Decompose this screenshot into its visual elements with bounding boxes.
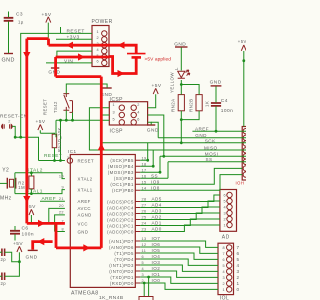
svg-text:(T0)PD4: (T0)PD4	[114, 257, 134, 262]
svg-text:2p: 2p	[1, 281, 7, 286]
svg-text:(ADC1)PC1: (ADC1)PC1	[107, 223, 134, 228]
wire IO4	[140, 259, 218, 265]
wire IO7	[140, 241, 218, 247]
svg-text:18: 18	[142, 162, 147, 166]
svg-text:VIN: VIN	[64, 58, 73, 64]
wire ICSP MOSI row4	[148, 115, 164, 156]
node C4 aref junction	[215, 130, 218, 133]
svg-text:4: 4	[96, 48, 99, 52]
svg-text:2: 2	[137, 103, 140, 107]
svg-text:7: 7	[222, 252, 225, 256]
svg-text:8: 8	[222, 246, 225, 250]
arrow left on +5V row	[66, 42, 73, 49]
svg-text:IC1: IC1	[68, 149, 77, 154]
wire +5V stem avcc	[30, 215, 32, 223]
battery symbol >5V applied	[127, 54, 146, 58]
svg-text:15: 15	[142, 180, 147, 184]
wire IO0	[140, 283, 218, 289]
svg-text:RESET-EN: RESET-EN	[0, 114, 28, 120]
svg-text:1: 1	[223, 223, 226, 227]
svg-text:4: 4	[137, 110, 140, 114]
wire SS line	[168, 161, 246, 163]
svg-text:AREF: AREF	[78, 199, 91, 204]
svg-text:L: L	[174, 67, 179, 70]
wire reset-en jumper to reset net	[12, 126, 15, 137]
wire R1 pullup leads	[40, 130, 54, 160]
svg-text:1M: 1M	[18, 185, 25, 190]
ground symbol bottom left	[28, 249, 38, 251]
svg-text:(MISO)PB4: (MISO)PB4	[108, 164, 134, 169]
svg-text:(OC1)PB1: (OC1)PB1	[110, 182, 134, 187]
svg-text:23: 23	[142, 228, 147, 232]
pin numbers AD header	[223, 193, 226, 227]
svg-text:19: 19	[142, 156, 147, 160]
wire AREF line	[192, 130, 246, 132]
svg-text:IO9: IO9	[151, 179, 160, 184]
svg-text:>5V applied: >5V applied	[145, 57, 172, 63]
svg-text:IO2: IO2	[152, 266, 161, 271]
connector IOL header outline	[218, 243, 234, 294]
wire AD0	[140, 225, 220, 232]
pin pads ICSP	[119, 105, 124, 110]
wire red top horizontal	[27, 37, 49, 40]
connector AD header outline	[220, 190, 237, 232]
svg-text:(SCK)PB5: (SCK)PB5	[110, 158, 134, 163]
red flow arrows	[23, 42, 124, 252]
connector POWER header outline	[92, 26, 109, 67]
svg-text:28: 28	[142, 198, 147, 202]
svg-text:16: 16	[142, 174, 147, 178]
svg-text:RESET: RESET	[78, 158, 95, 163]
wire crystal left lead	[0, 182, 7, 184]
svg-text:GND: GND	[78, 229, 89, 234]
wire ICSP MISO row1 left	[89, 108, 109, 150]
wire SCK line	[101, 142, 246, 144]
svg-text:AVCC: AVCC	[78, 206, 91, 211]
wire RESET net from power header	[21, 33, 92, 137]
svg-text:IOH: IOH	[236, 181, 245, 186]
svg-text:C4: C4	[221, 98, 228, 104]
node led resistor top junction	[180, 83, 183, 86]
svg-text:1: 1	[222, 288, 225, 292]
wire red gnd pin5 left	[56, 57, 110, 77]
wire SS riser to pin16	[140, 162, 168, 178]
wire GND line	[158, 137, 246, 139]
wire MOSI riser to pin17	[140, 156, 160, 172]
svg-text:6: 6	[142, 255, 145, 259]
svg-text:24: 24	[142, 222, 147, 226]
node mosi line junction	[162, 155, 165, 158]
svg-text:(AIN0)PD6: (AIN0)PD6	[109, 245, 134, 250]
wire AD1	[140, 219, 220, 226]
svg-text:2: 2	[223, 217, 226, 221]
svg-text:5: 5	[223, 199, 226, 203]
arrow left on gnd branch	[37, 238, 44, 245]
svg-text:AREF: AREF	[42, 196, 57, 202]
svg-text:RN1D_10K: RN1D_10K	[57, 127, 62, 152]
LED1 yellow	[178, 70, 190, 78]
wire IO6	[140, 247, 218, 253]
wire IO2	[140, 271, 218, 277]
power +5V symbol bottom left	[17, 246, 22, 252]
svg-text:+5V: +5V	[36, 119, 46, 125]
svg-text:2: 2	[222, 282, 225, 286]
wire IO9	[140, 168, 242, 184]
svg-text:(INT1)PD3: (INT1)PD3	[109, 263, 134, 268]
svg-text:1K: 1K	[205, 101, 210, 107]
svg-text:+5V: +5V	[13, 241, 23, 247]
ground symbol below C3	[4, 53, 13, 55]
svg-text:C3: C3	[16, 12, 23, 18]
IC left pin numbers	[59, 156, 70, 232]
svg-text:AD3: AD3	[152, 209, 162, 214]
pin numbers POWER	[96, 30, 99, 64]
wire button bottom rail to ICSP pin5	[56, 110, 109, 137]
svg-text:(T1)PD5: (T1)PD5	[114, 251, 134, 256]
svg-text:AD2: AD2	[152, 215, 162, 220]
svg-text:(ADC2)PC2: (ADC2)PC2	[107, 217, 134, 222]
wire AD4	[140, 201, 220, 208]
svg-text:(AIN1)PD7: (AIN1)PD7	[109, 239, 134, 244]
svg-text:IO5: IO5	[152, 248, 161, 253]
svg-text:GND: GND	[147, 127, 159, 133]
node reset power junction	[19, 136, 22, 139]
svg-text:3: 3	[112, 110, 115, 114]
svg-text:VCC: VCC	[78, 221, 88, 226]
wire MISO line	[101, 149, 246, 151]
svg-text:1µ: 1µ	[18, 20, 24, 25]
svg-text:RN2A: RN2A	[171, 98, 176, 112]
solder jumper RESET-EN	[2, 124, 13, 128]
svg-text:XTAL2: XTAL2	[26, 168, 43, 174]
svg-text:+5V: +5V	[238, 39, 246, 44]
svg-text:1K_RN4B: 1K_RN4B	[99, 295, 123, 300]
wire ICSP SCK row3 left hidden under red	[101, 115, 109, 143]
svg-text:2: 2	[142, 279, 145, 283]
svg-text:10: 10	[59, 174, 64, 178]
svg-text:(INT0)PD2: (INT0)PD2	[109, 269, 134, 274]
svg-text:AGND: AGND	[78, 213, 92, 218]
svg-text:RESET: RESET	[44, 153, 62, 159]
arrow right to battery bottom	[118, 70, 125, 77]
svg-text:3: 3	[222, 276, 225, 280]
svg-text:YELLOW: YELLOW	[170, 72, 175, 93]
resistor RN4B bottom	[139, 297, 153, 300]
svg-text:IO3: IO3	[152, 260, 161, 265]
wire rn2 to SCK	[180, 120, 182, 143]
power +5V symbol above R1	[38, 125, 43, 131]
svg-text:5: 5	[222, 264, 225, 268]
power +5V symbol at AVCC	[29, 209, 34, 215]
svg-text:IO6: IO6	[152, 242, 161, 247]
IC right pin labels	[107, 158, 134, 286]
node reset-en junction	[14, 136, 17, 139]
wire +5V bottom stem	[18, 252, 20, 261]
node pin17 junction	[159, 171, 162, 174]
wire AREF left	[40, 200, 65, 202]
resistor R1 10K	[52, 134, 57, 148]
arrow right on bottom row	[83, 244, 90, 251]
wire AVCC riser	[49, 208, 65, 222]
wire AD5	[140, 195, 220, 202]
wire C3 top	[8, 12, 10, 18]
svg-text:(TXD)PD1: (TXD)PD1	[110, 275, 134, 280]
svg-text:22: 22	[59, 211, 64, 215]
wire GND above LED stem	[180, 48, 182, 71]
wire red to VCC pin7	[27, 222, 65, 225]
svg-text:XTAL1: XTAL1	[26, 189, 43, 195]
svg-text:6: 6	[237, 251, 240, 256]
wire stub near reset	[60, 27, 62, 33]
svg-text:17: 17	[142, 168, 147, 172]
wire red riser at 48.5	[47, 39, 50, 46]
IC left pin labels	[78, 158, 95, 234]
wire SCK riser to pin19	[140, 143, 147, 160]
wire AGND riser	[55, 215, 65, 232]
wire button to reset row	[60, 120, 62, 160]
svg-text:AD4: AD4	[152, 203, 162, 208]
wire button top to gnd	[66, 84, 107, 94]
svg-text:C6: C6	[22, 226, 29, 232]
svg-text:GND: GND	[26, 254, 38, 260]
pin pads AD	[227, 192, 232, 197]
arrow down on left vertical bottom	[23, 196, 30, 203]
svg-text:RESET: RESET	[67, 29, 85, 35]
svg-text:4: 4	[237, 263, 240, 268]
svg-text:4: 4	[222, 270, 225, 274]
svg-text:RESET: RESET	[43, 99, 48, 115]
wire IO3	[140, 265, 218, 271]
node button bottom junctions	[59, 119, 62, 122]
svg-text:IO4: IO4	[152, 254, 161, 259]
svg-text:6: 6	[222, 258, 225, 262]
svg-text:1: 1	[96, 30, 99, 34]
wire RN4B risers	[144, 277, 148, 296]
svg-text:GND: GND	[2, 58, 15, 64]
capacitor C1 22p	[2, 249, 5, 257]
svg-text:XTAL1: XTAL1	[78, 187, 93, 192]
svg-text:(ICP)PB0: (ICP)PB0	[112, 188, 134, 193]
svg-text:ATMEGA8: ATMEGA8	[71, 291, 99, 297]
svg-text:Y2: Y2	[2, 168, 9, 174]
svg-text:7: 7	[237, 245, 240, 250]
svg-text:AD5: AD5	[152, 197, 162, 202]
wire GND pin8	[55, 231, 65, 233]
pin numbers ICSP	[112, 103, 139, 122]
wire ICSP +5V riser	[148, 94, 156, 108]
wire IO5	[140, 253, 218, 259]
wire red gnd pin5 right to battery	[109, 57, 136, 74]
wire +5V top right stem	[243, 51, 245, 127]
node rn4b junctions	[143, 282, 146, 285]
ground symbol above button	[102, 87, 111, 89]
arrow right on pin5 row	[78, 53, 85, 60]
svg-text:SCK: SCK	[205, 139, 216, 144]
svg-text:5: 5	[142, 261, 145, 265]
svg-text:TS42: TS42	[53, 101, 58, 113]
wire reset row to IC	[39, 160, 65, 162]
svg-text:6: 6	[96, 60, 99, 64]
wire red middle vertical	[100, 77, 103, 248]
IC right pin numbers	[142, 156, 147, 283]
connector ICSP outline	[109, 102, 147, 125]
node pin18 junction	[152, 165, 155, 168]
svg-text:ICSP: ICSP	[110, 128, 124, 134]
wire C3 to GND	[8, 22, 10, 54]
wire C6 leads	[14, 226, 16, 241]
capacitor C6	[10, 231, 20, 234]
node pin19 junction	[146, 159, 149, 162]
IC1 ATMEGA8 outline	[70, 155, 135, 288]
svg-text:GND: GND	[174, 42, 186, 48]
capacitor C2 22p	[2, 273, 5, 281]
wire red bottom horizontal	[56, 246, 101, 249]
svg-text:AD1: AD1	[152, 221, 162, 226]
svg-text:5: 5	[112, 118, 115, 122]
svg-text:RN2B: RN2B	[188, 98, 193, 112]
svg-text:MOSI: MOSI	[205, 152, 219, 157]
power +5V symbol at ICSP	[153, 88, 158, 94]
wire LED to resistors	[180, 80, 182, 95]
net labels far right	[195, 126, 218, 162]
svg-text:21: 21	[59, 197, 64, 201]
svg-text:13: 13	[142, 237, 147, 241]
pushbutton S1 RESET TS42	[63, 94, 72, 113]
pin stubs IC right	[135, 160, 140, 283]
pin pads IOH	[243, 129, 248, 134]
svg-text:GND: GND	[195, 133, 207, 138]
svg-text:100n: 100n	[22, 232, 34, 238]
svg-text:3: 3	[237, 269, 240, 274]
wire VIN	[46, 62, 92, 64]
ground symbol near power header	[51, 67, 59, 69]
node sck led junction	[180, 141, 183, 144]
wire +5V row3 to battery	[49, 45, 137, 53]
svg-text:4: 4	[142, 267, 145, 271]
svg-text:2p: 2p	[1, 257, 7, 262]
ground symbol at ICSP	[147, 124, 155, 126]
svg-text:+5V: +5V	[42, 12, 52, 18]
wire ICSP GND row6	[148, 122, 152, 124]
svg-text:AREF: AREF	[195, 126, 209, 131]
node +5V top right	[242, 59, 245, 62]
wire red drop to gnd row	[55, 223, 58, 248]
node resistor bottom junction	[180, 118, 183, 121]
arrow left near battery	[118, 42, 125, 49]
pin pads POWER	[102, 31, 107, 36]
svg-text:AD: AD	[222, 234, 230, 240]
svg-text:(ADC0)PC0: (ADC0)PC0	[107, 229, 134, 234]
node R2 loop dots	[30, 171, 33, 174]
reset pin bubble	[67, 158, 72, 163]
wire rn2 tops tie	[181, 85, 199, 95]
red IO numbers IOL	[237, 245, 240, 292]
wire AD3	[140, 207, 220, 214]
svg-text:SS: SS	[206, 157, 213, 162]
svg-text:2: 2	[237, 275, 240, 280]
wire MISO riser to pin18	[140, 150, 153, 166]
svg-text:11: 11	[142, 249, 147, 253]
arrow down on left vertical top	[23, 52, 30, 59]
wire C4 riser to AREF	[215, 106, 217, 131]
svg-text:(RXD)PD0: (RXD)PD0	[110, 281, 134, 286]
wire MOSI line	[160, 155, 246, 157]
pin pads IOL	[227, 245, 232, 250]
svg-text:GND: GND	[210, 80, 222, 86]
resistor RN2A	[178, 95, 184, 111]
svg-text:IO7: IO7	[152, 236, 161, 241]
svg-text:IO8: IO8	[151, 185, 160, 190]
ground symbol above LED	[175, 46, 188, 48]
node R1 reset junction	[53, 159, 56, 162]
svg-text:1: 1	[67, 156, 70, 160]
wire C4 top stem	[215, 86, 217, 102]
crystal Y2	[7, 178, 15, 189]
power +5V symbol top right	[241, 45, 246, 51]
svg-text:27: 27	[142, 204, 147, 208]
svg-text:ICSP: ICSP	[110, 97, 124, 103]
svg-text:100n: 100n	[221, 108, 233, 114]
svg-text:+3V3: +3V3	[67, 35, 80, 41]
svg-text:1: 1	[112, 103, 115, 107]
svg-text:9: 9	[61, 185, 64, 189]
svg-text:MHz: MHz	[0, 196, 12, 202]
wire GND line riser	[151, 122, 158, 138]
wire red gnd branch	[33, 242, 53, 250]
svg-text:1: 1	[237, 281, 240, 286]
capacitor C4	[211, 103, 221, 106]
svg-text:26: 26	[142, 210, 147, 214]
wire rn2 bottoms tie	[181, 111, 199, 120]
svg-text:3: 3	[142, 273, 145, 277]
wire +5V stem top left	[47, 23, 49, 39]
wire GND pin4 power	[57, 51, 92, 57]
svg-text:6: 6	[223, 193, 226, 197]
svg-text:(SS)PB2: (SS)PB2	[114, 176, 134, 181]
wire red long left vertical	[25, 39, 28, 224]
arrow up on middle vertical	[98, 143, 105, 150]
arrow right on vcc row	[38, 220, 45, 227]
wire IO8	[140, 175, 242, 191]
connector IOH header outline right edge	[242, 127, 250, 181]
resistor R2 1M	[29, 176, 34, 189]
ground symbol above C4	[211, 85, 222, 87]
wire reset net horizontal	[15, 137, 38, 160]
svg-text:3: 3	[223, 211, 226, 215]
svg-text:(ADC3)PC3: (ADC3)PC3	[107, 211, 134, 216]
svg-text:AD0: AD0	[152, 227, 162, 232]
svg-text:(ADC5)PC5: (ADC5)PC5	[107, 199, 134, 204]
svg-text:12: 12	[142, 243, 147, 247]
svg-text:2: 2	[96, 36, 99, 40]
net labels right side rows	[151, 173, 162, 283]
svg-text:MISO: MISO	[204, 146, 218, 151]
wire red button top horizontal	[56, 75, 102, 78]
svg-text:SS: SS	[151, 173, 158, 178]
svg-text:20: 20	[59, 204, 64, 208]
svg-text:14: 14	[142, 186, 147, 190]
svg-text:5: 5	[237, 257, 240, 262]
svg-text:2: 2	[8, 120, 11, 124]
svg-text:IO0: IO0	[152, 278, 161, 283]
svg-text:(MOSI)PB3: (MOSI)PB3	[108, 170, 134, 175]
svg-text:4: 4	[223, 205, 226, 209]
wire cap22p leads	[0, 252, 19, 276]
pin numbers IOL header	[222, 246, 225, 292]
wire crystal loop	[15, 173, 65, 194]
svg-text:IOL: IOL	[220, 296, 229, 300]
node bottom left junction	[18, 260, 21, 263]
